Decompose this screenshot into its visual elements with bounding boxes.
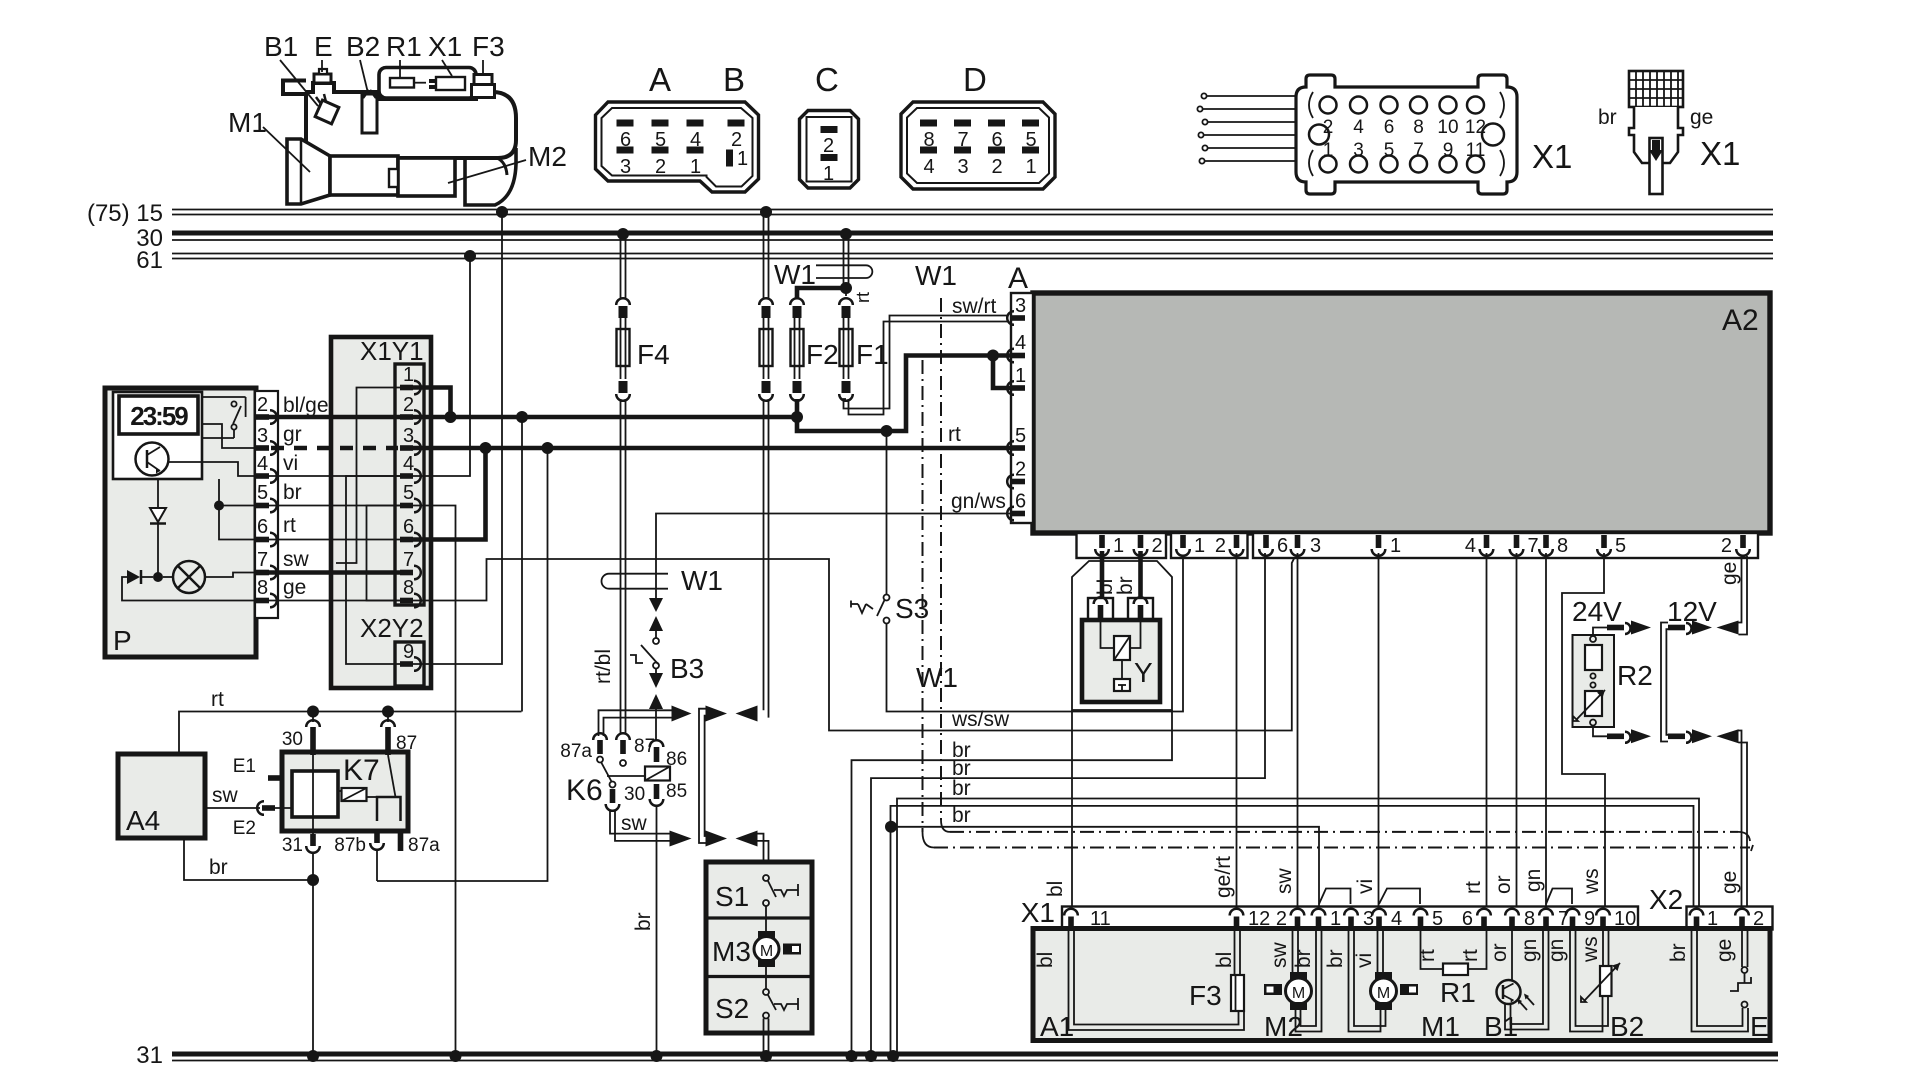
- wire ge/rt A2 to X1.12: [1212, 553, 1237, 908]
- svg-text:A: A: [649, 61, 671, 98]
- svg-text:85: 85: [666, 781, 687, 802]
- wire Y1.5 to bus 31: [413, 506, 462, 1063]
- inline connector row 2: [706, 831, 769, 872]
- wire gn A2 pin8 to X1.7: [1522, 553, 1546, 908]
- svg-text:br: br: [952, 777, 971, 800]
- svg-text:bl: bl: [1213, 952, 1236, 968]
- valve Y: [1082, 597, 1160, 702]
- svg-text:24V: 24V: [1572, 596, 1622, 627]
- K7 pin E1: [268, 775, 282, 781]
- K7 switch blade: [388, 755, 396, 797]
- svg-text:4: 4: [924, 156, 935, 178]
- svg-text:3: 3: [1310, 535, 1321, 557]
- P pin 3: [256, 441, 277, 455]
- Y1 pin 5: [400, 499, 421, 513]
- svg-text:B2: B2: [346, 31, 380, 62]
- wire rt A2 pin4g3 to X1.6: [1462, 553, 1487, 908]
- Y1 pin 8: [400, 594, 421, 608]
- svg-text:X1Y1: X1Y1: [360, 336, 424, 366]
- bus 31: [136, 1042, 1778, 1069]
- connector B pins: [728, 120, 745, 127]
- svg-text:M1: M1: [228, 107, 267, 138]
- svg-text:Y: Y: [1134, 657, 1153, 688]
- P pin 5: [256, 499, 277, 513]
- svg-text:br: br: [283, 481, 302, 504]
- switch S3: [851, 593, 929, 624]
- X1 inside: [436, 77, 465, 90]
- resistor R1: [1416, 930, 1487, 1008]
- P pin 2: [256, 410, 277, 424]
- svg-text:31: 31: [282, 835, 303, 856]
- bus 30: [136, 225, 1773, 252]
- Y1 pin 4: [400, 469, 421, 483]
- wire ge P8-Y1.8: [269, 576, 400, 601]
- svg-text:1: 1: [1194, 535, 1205, 557]
- svg-text:4: 4: [1015, 332, 1026, 354]
- svg-text:A: A: [1008, 262, 1028, 295]
- svg-text:1: 1: [737, 148, 748, 170]
- wire Y1.6 to rt net: [413, 448, 486, 540]
- E connector: [314, 74, 331, 83]
- svg-text:2: 2: [655, 156, 666, 178]
- svg-text:3: 3: [620, 156, 631, 178]
- svg-text:2: 2: [1152, 535, 1163, 557]
- Y2 pin 9: [400, 657, 421, 671]
- K6 coil: [645, 767, 670, 781]
- A2 pin 6: [1007, 507, 1025, 521]
- svg-text:3: 3: [1353, 140, 1364, 161]
- svg-text:1: 1: [1323, 140, 1334, 161]
- wire gr P3-Y1.3: [271, 423, 398, 448]
- A2 pin 3: [1007, 311, 1025, 325]
- internal tie pin5-pin8: [367, 506, 401, 601]
- exhaust duct: [465, 148, 516, 205]
- svg-text:B3: B3: [670, 653, 704, 684]
- wire br A4 to K7.31: [184, 838, 308, 880]
- K6 pin 86: [650, 740, 664, 747]
- svg-text:vi: vi: [1353, 953, 1376, 968]
- svg-text:7: 7: [403, 549, 414, 571]
- control resistor B2: [1545, 930, 1644, 1042]
- fuse F2a: [759, 206, 773, 718]
- svg-text:ge: ge: [283, 576, 306, 599]
- relay K6: [560, 733, 687, 811]
- fuel pump connector X1: [1598, 71, 1740, 194]
- svg-text:23:59: 23:59: [130, 401, 188, 431]
- svg-text:1: 1: [1026, 156, 1037, 178]
- wire vi P4-Y1.4: [269, 452, 400, 476]
- wire sw A2 pin3g3 to X1.2: [1273, 553, 1298, 908]
- svg-text:1: 1: [1113, 535, 1124, 557]
- svg-text:R1: R1: [1440, 977, 1476, 1008]
- svg-text:gr: gr: [283, 423, 302, 446]
- svg-text:B: B: [723, 61, 745, 98]
- A2 pin 2: [1007, 475, 1025, 489]
- valve Y pin 2 wire br: [1114, 551, 1141, 606]
- svg-text:X1: X1: [1021, 897, 1055, 928]
- W1 loop top: [774, 259, 873, 303]
- svg-text:E: E: [1750, 1011, 1769, 1042]
- svg-text:M: M: [1377, 985, 1390, 1002]
- svg-text:4: 4: [1465, 535, 1476, 557]
- wire sw K6.30 to connector: [610, 811, 692, 847]
- svg-text:31: 31: [136, 1042, 163, 1069]
- svg-text:sw: sw: [1273, 868, 1296, 895]
- net gn/ws A2 pin6 to B3: [656, 490, 1011, 598]
- svg-text:6: 6: [1015, 491, 1026, 513]
- fuse F1: [839, 228, 888, 401]
- control box on top: [379, 68, 476, 99]
- svg-text:gn: gn: [1545, 939, 1568, 962]
- fuse F2: [790, 288, 843, 417]
- connector X1 12-pin housing: [1197, 75, 1572, 194]
- svg-text:2: 2: [1721, 535, 1732, 557]
- wire to pin 8: [122, 577, 256, 601]
- connector A+B housing: [596, 61, 759, 192]
- wire to pin 4: [169, 462, 256, 476]
- sensor B1 body: [315, 100, 339, 124]
- wire rt P6-Y1.6: [269, 514, 400, 540]
- svg-text:2: 2: [257, 394, 268, 416]
- svg-text:ge: ge: [1713, 939, 1736, 962]
- svg-text:30: 30: [282, 729, 303, 750]
- node: [153, 572, 163, 582]
- svg-text:B1: B1: [1484, 1011, 1518, 1042]
- net br1 bus31 to A2 via Y-housing: [846, 710, 1267, 1062]
- svg-text:2: 2: [1215, 535, 1226, 557]
- svg-text:87a: 87a: [408, 835, 440, 856]
- photo sensor B1: [1484, 930, 1549, 1042]
- jumper X1.4-X1.5: [1379, 889, 1420, 905]
- svg-text:ge: ge: [1690, 106, 1713, 129]
- 12V jumper link: [1661, 621, 1712, 744]
- svg-text:X2: X2: [1649, 884, 1683, 915]
- relay K7: [233, 712, 440, 857]
- connector A pins: [617, 120, 634, 127]
- heater switch E: [1667, 930, 1769, 1042]
- W1 harness boundary: [915, 260, 1753, 851]
- svg-text:87b: 87b: [334, 835, 366, 856]
- svg-text:87: 87: [634, 736, 655, 757]
- svg-text:2: 2: [403, 394, 414, 416]
- svg-text:br: br: [1324, 949, 1347, 968]
- svg-text:rt: rt: [211, 688, 224, 711]
- svg-text:rt: rt: [1462, 881, 1485, 894]
- wire S3 lower to A2 bottom pin: [887, 553, 1184, 712]
- net sw/rt F1 to A2 pin 3: [844, 295, 1009, 415]
- svg-text:6: 6: [403, 516, 414, 538]
- K7 pin 30: [306, 720, 320, 727]
- svg-text:3: 3: [257, 425, 268, 447]
- wire vi A2 pin1g3 to X1.4: [1354, 553, 1379, 908]
- connector D pins: [920, 120, 937, 127]
- wire br P5-Y1.5: [269, 481, 400, 506]
- svg-text:2: 2: [823, 135, 834, 157]
- svg-text:5: 5: [1384, 140, 1395, 161]
- svg-text:10: 10: [1437, 117, 1458, 138]
- heater plug S1 M3 S2 block: [706, 862, 812, 1033]
- svg-text:E: E: [314, 31, 333, 62]
- P pin 6: [256, 533, 277, 547]
- svg-text:3: 3: [1015, 295, 1026, 317]
- svg-text:2: 2: [1323, 117, 1334, 138]
- P internal switch: [202, 396, 246, 398]
- A1 wire bl X1.11 to F3: [1034, 930, 1244, 1030]
- connector C pins: [821, 126, 838, 133]
- svg-text:S2: S2: [715, 993, 749, 1024]
- 12V female connectors: [1717, 621, 1739, 744]
- net br4 branch to X1.1: [885, 804, 1319, 908]
- svg-text:9: 9: [1443, 140, 1454, 161]
- svg-text:F2: F2: [806, 339, 839, 370]
- svg-text:8: 8: [1413, 117, 1424, 138]
- svg-text:R1: R1: [386, 31, 422, 62]
- K7 pin 87: [381, 720, 395, 727]
- wire sw P7-Y1.7: [269, 548, 400, 573]
- wire Y2.9 to bus 15: [413, 206, 508, 664]
- svg-text:D: D: [963, 61, 987, 98]
- wire bl/ge P2-Y1.2: [269, 394, 400, 417]
- svg-text:sw: sw: [283, 548, 310, 571]
- svg-text:6: 6: [1384, 117, 1395, 138]
- svg-text:W1: W1: [916, 662, 958, 693]
- svg-text:1: 1: [823, 163, 834, 185]
- wire 87b to rt node: [377, 448, 548, 881]
- bus 15 (75): [87, 200, 1773, 227]
- K7 coil: [342, 788, 367, 801]
- svg-text:12: 12: [1465, 117, 1486, 138]
- svg-text:8: 8: [1557, 535, 1568, 557]
- wire rt line: [179, 688, 522, 754]
- connector strip X2: [1649, 884, 1773, 930]
- svg-text:A2: A2: [1722, 304, 1759, 337]
- svg-text:X2Y2: X2Y2: [360, 613, 424, 643]
- connector X1Y1 block: [331, 336, 431, 688]
- svg-text:K7: K7: [343, 754, 380, 787]
- svg-text:M1: M1: [1421, 1011, 1460, 1042]
- wire sw A4 to K7.E2: [205, 784, 260, 808]
- P pin 7: [256, 566, 277, 580]
- X1 harness wires: [1206, 95, 1296, 97]
- wire ws A2 pin5 to X1.10: [1562, 553, 1605, 908]
- svg-text:2: 2: [1015, 459, 1026, 481]
- svg-text:30: 30: [624, 784, 645, 805]
- heater unit physical drawing: [228, 31, 567, 205]
- F3 connector: [474, 75, 492, 85]
- svg-text:P: P: [113, 625, 132, 656]
- svg-text:K6: K6: [566, 774, 603, 807]
- clock display 23:59: [119, 396, 198, 434]
- K7 pin 31: [310, 834, 316, 846]
- fuse F4: [616, 228, 669, 733]
- connector D housing: [901, 61, 1055, 189]
- svg-text:rt/bl: rt/bl: [592, 649, 615, 684]
- svg-text:M2: M2: [528, 141, 567, 172]
- svg-text:6: 6: [257, 516, 268, 538]
- switch S2: [763, 989, 769, 995]
- svg-text:8: 8: [403, 577, 414, 599]
- svg-text:5: 5: [403, 482, 414, 504]
- svg-text:br: br: [952, 804, 971, 827]
- svg-text:gn: gn: [1522, 869, 1545, 892]
- svg-text:rt: rt: [283, 514, 296, 537]
- svg-text:M2: M2: [1264, 1011, 1303, 1042]
- svg-text:3: 3: [403, 425, 414, 447]
- svg-text:6: 6: [1277, 535, 1288, 557]
- motor M2: [1264, 930, 1322, 1042]
- net bl/ge Y1.2 to A2 pins 4,1: [413, 350, 1011, 438]
- svg-text:sw/rt: sw/rt: [952, 295, 996, 318]
- A2 bottom pin box group2: [1171, 533, 1248, 558]
- K6 pin 30: [610, 782, 616, 788]
- lamp: [173, 561, 205, 593]
- svg-text:sw: sw: [1268, 942, 1291, 969]
- solenoid valve Y connector housing: [1072, 561, 1172, 710]
- Y1 pin 6: [400, 533, 421, 547]
- K6 pin 85: [654, 784, 660, 799]
- internal tie pin1: [336, 388, 400, 564]
- A2 pin 5: [1007, 441, 1025, 455]
- internal tie pin4-pin9: [346, 476, 400, 664]
- net rt Y1.3 to A2 pin 5: [413, 423, 1011, 454]
- svg-text:M: M: [1292, 985, 1305, 1002]
- svg-text:X1: X1: [428, 31, 462, 62]
- K7 pin 87b: [374, 831, 380, 843]
- svg-text:S3: S3: [895, 593, 929, 624]
- svg-text:br: br: [1667, 943, 1690, 962]
- svg-text:F3: F3: [472, 31, 505, 62]
- svg-text:B1: B1: [264, 31, 298, 62]
- svg-text:bl: bl: [1034, 952, 1057, 968]
- svg-text:bl/ge: bl/ge: [283, 394, 329, 417]
- flame sensor B3 chain: [592, 598, 704, 740]
- heater body: [306, 83, 516, 158]
- bus 61: [136, 247, 1773, 274]
- fuse F3: [1189, 930, 1244, 1011]
- svg-text:F4: F4: [637, 339, 670, 370]
- svg-text:ws: ws: [1580, 868, 1603, 895]
- svg-text:7: 7: [1413, 140, 1424, 161]
- jumper X1.7-X1.9: [1546, 889, 1572, 905]
- svg-text:or: or: [1488, 943, 1511, 962]
- sensor B2 body: [362, 94, 377, 133]
- P pin strip: [255, 391, 278, 618]
- svg-text:S1: S1: [715, 881, 749, 912]
- P inner white module: [113, 392, 202, 479]
- R1 inside: [390, 78, 414, 88]
- svg-text:4: 4: [1353, 117, 1364, 138]
- motor M1: [1324, 930, 1460, 1042]
- svg-text:gn/ws: gn/ws: [951, 490, 1006, 513]
- Y1 pin 3: [400, 441, 421, 455]
- svg-text:rt: rt: [853, 292, 873, 303]
- svg-text:br: br: [1114, 576, 1137, 595]
- A2 pin 4: [1007, 349, 1025, 363]
- svg-text:or: or: [1492, 875, 1515, 894]
- svg-text:ge: ge: [1718, 871, 1741, 894]
- svg-text:br: br: [209, 856, 228, 879]
- wire K6.85 to bus 31: [632, 806, 663, 1062]
- svg-text:7: 7: [257, 549, 268, 571]
- svg-text:ge: ge: [1718, 562, 1741, 585]
- svg-text:vi: vi: [1354, 879, 1377, 894]
- M1 motor housing: [330, 156, 398, 195]
- W1 loop mid: [602, 565, 723, 596]
- svg-text:1: 1: [1015, 365, 1026, 387]
- wire ge 12V to X2.2: [1718, 731, 1747, 909]
- svg-text:R2: R2: [1617, 660, 1653, 691]
- svg-text:X1: X1: [1532, 138, 1572, 175]
- svg-text:br: br: [632, 912, 655, 931]
- switch S1: [763, 875, 769, 881]
- timer unit P: [105, 388, 278, 657]
- svg-text:E1: E1: [233, 756, 256, 777]
- connector strip X1: [1021, 889, 1638, 931]
- diode chain: [157, 479, 159, 508]
- svg-text:bl: bl: [1044, 881, 1067, 897]
- svg-text:ws: ws: [1579, 936, 1602, 963]
- P pin 4: [256, 469, 277, 483]
- control unit A2: [1007, 262, 1770, 533]
- transistor symbol: [136, 443, 169, 476]
- svg-text:E2: E2: [233, 818, 256, 839]
- A2 pin 1: [1007, 381, 1025, 395]
- net ws/sw Y1.8 to A2 pin 3b: [413, 552, 1298, 732]
- wire K7.31 to bus 31: [307, 853, 319, 1062]
- svg-text:1: 1: [403, 364, 414, 386]
- svg-text:1: 1: [1390, 535, 1401, 557]
- svg-text:A4: A4: [126, 805, 160, 836]
- wire S3 upper: [886, 431, 888, 595]
- svg-text:vi: vi: [283, 452, 298, 475]
- heater internal unit A1: [1033, 929, 1770, 1043]
- svg-text:sw: sw: [621, 812, 648, 835]
- wire to pin 3: [202, 424, 256, 448]
- wire Y1.2 node to relay line: [521, 417, 523, 712]
- inline connector row 1: [599, 706, 758, 844]
- svg-text:br: br: [1292, 949, 1315, 968]
- K6 switch blade: [601, 762, 612, 782]
- svg-text:F3: F3: [1189, 980, 1222, 1011]
- M2 blower box: [398, 158, 455, 196]
- motor M3: [765, 906, 767, 931]
- P pin 8: [256, 594, 277, 608]
- svg-text:(75) 15: (75) 15: [87, 200, 163, 227]
- wire or A2 pin7 to X1.8: [1492, 553, 1517, 908]
- svg-text:2: 2: [992, 156, 1003, 178]
- A2 bottom pin box group1: [1077, 533, 1167, 558]
- heater left arm: [283, 81, 306, 95]
- left diode: [127, 570, 140, 584]
- svg-text:5: 5: [1015, 425, 1026, 447]
- svg-text:M3: M3: [712, 936, 751, 967]
- wire K7.87b: [376, 850, 378, 881]
- wire Y1.4 to bus 61: [413, 250, 476, 476]
- svg-text:W1: W1: [681, 565, 723, 596]
- svg-text:ge/rt: ge/rt: [1212, 856, 1235, 898]
- svg-text:4: 4: [403, 453, 414, 475]
- wire bl Y-housing to X1.11: [1044, 710, 1072, 908]
- connector C housing: [800, 61, 859, 188]
- net br3 bus31 to X2.1: [887, 777, 1699, 1062]
- wire ge A2 pin2 to 12V: [1718, 556, 1747, 635]
- svg-text:br: br: [1598, 106, 1617, 129]
- svg-text:8: 8: [257, 577, 268, 599]
- valve Y pin 1 wire bl: [1094, 551, 1117, 606]
- svg-text:5: 5: [1615, 535, 1626, 557]
- K7 pin E2: [257, 801, 275, 815]
- svg-text:rt: rt: [1416, 949, 1439, 962]
